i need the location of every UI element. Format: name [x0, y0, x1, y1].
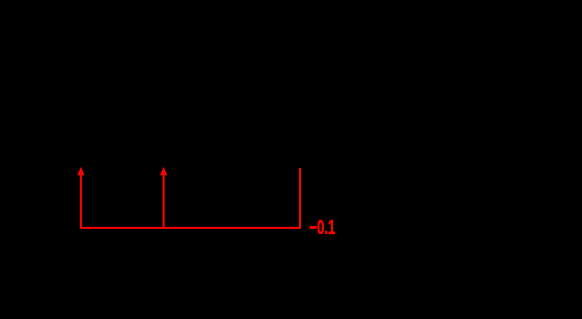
impulse arrow 2 head — [160, 167, 167, 175]
impulse arrow 1 shaft — [80, 174, 82, 229]
impulse arrow 2 shaft — [163, 174, 165, 229]
impulse arrow 1 head — [77, 167, 84, 175]
svg-text:−0.1: −0.1 — [309, 217, 335, 239]
baseline segment at -0.1 level — [80, 168, 300, 228]
